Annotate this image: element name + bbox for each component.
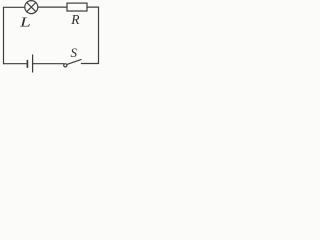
wire bottom-left segment [4,63,27,65]
svg-text:R: R [70,12,80,27]
switch S lever [67,60,81,65]
wire right vertical [98,7,100,63]
wire left vertical [3,7,5,63]
battery short plate [26,61,28,68]
lamp L [25,1,38,14]
wire top-left segment [4,6,25,8]
wire lamp to resistor [38,6,67,8]
svg-text:L: L [19,16,31,31]
wire bottom-right segment [81,63,98,65]
svg-text:S: S [71,45,78,60]
switch S pivot [64,64,67,67]
wire resistor to top-right corner [87,6,99,8]
battery long plate [32,55,34,72]
wire battery to switch [33,63,64,65]
resistor R1 [67,3,87,11]
